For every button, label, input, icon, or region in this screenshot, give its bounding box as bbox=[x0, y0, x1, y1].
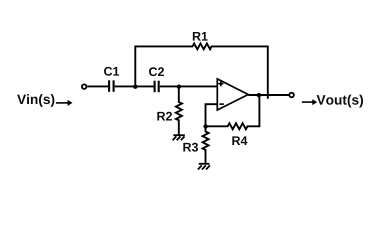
ground (below R3) bbox=[198, 164, 210, 170]
op-amp - marker bbox=[219, 103, 224, 105]
output terminal circle bbox=[289, 93, 294, 98]
label R3 bbox=[183, 143, 198, 152]
wire feedback with resistor R4 zigzag up to output bbox=[205, 95, 260, 129]
op-amp + marker bbox=[218, 81, 223, 86]
label R2 bbox=[157, 112, 172, 121]
node: R3/R4 inverting junction bbox=[203, 124, 207, 128]
capacitor C2 bbox=[155, 81, 159, 93]
node: C1/C2/R1 junction bbox=[133, 85, 137, 89]
label R1 bbox=[193, 32, 208, 41]
node: output/feedback junction bbox=[257, 93, 261, 97]
wire R1 feedback loop with resistor R1 zigzag bbox=[135, 44, 267, 99]
op-amp U1 triangle bbox=[217, 79, 248, 110]
label R4 bbox=[232, 136, 247, 145]
capacitor C1 bbox=[109, 80, 114, 92]
wire C2 to op-amp + input bbox=[160, 85, 218, 87]
wire input terminal to C1 bbox=[87, 85, 108, 87]
label C1 bbox=[104, 67, 119, 76]
arrow after Vin(s) bbox=[56, 100, 73, 106]
label C2 bbox=[149, 67, 164, 76]
label Vout(s) bbox=[317, 95, 363, 108]
input terminal circle bbox=[82, 84, 87, 89]
wire op-amp output bbox=[248, 94, 289, 96]
arrow before Vout(s) bbox=[302, 99, 317, 105]
wire C1 to C2 bbox=[115, 85, 154, 87]
label Vin(s) bbox=[17, 94, 54, 107]
wire - input stub down to feedback node bbox=[206, 104, 218, 126]
ground (below R2) bbox=[173, 135, 185, 140]
node: R2 junction bbox=[177, 85, 181, 89]
wire R2 drop with resistor R2 zigzag to ground bbox=[176, 87, 182, 136]
wire R3 drop with resistor R3 zigzag to ground bbox=[203, 126, 209, 163]
